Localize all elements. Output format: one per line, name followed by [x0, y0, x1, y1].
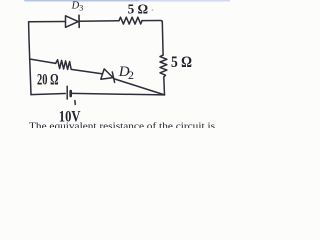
- wire top-left to D3: [29, 21, 65, 24]
- resistor 20ohm zigzag: [56, 60, 72, 70]
- scan artifact top rule: [25, 0, 140, 2]
- stray ink tick: [74, 101, 76, 105]
- wire bottom left segment: [31, 94, 65, 95]
- wire resistor to top-right corner: [142, 21, 163, 56]
- wire D3 to resistor: [79, 20, 119, 23]
- svg-text:The equivalent resistance of t: The equivalent resistance of the circuit…: [29, 121, 216, 128]
- svg-text:20 Ω: 20 Ω: [37, 72, 59, 89]
- wire 20ohm to D2: [71, 69, 102, 73]
- node middle junction: [30, 59, 56, 63]
- svg-text:5 Ω: 5 Ω: [171, 52, 192, 71]
- battery cell short plate: [69, 91, 72, 96]
- scan artifact top rule fade: [140, 0, 230, 2]
- wire bottom right segment: [72, 93, 164, 95]
- diode D2 cathode bar: [112, 72, 114, 82]
- svg-text:5 Ω: 5 Ω: [128, 3, 149, 18]
- wire left vertical: [29, 22, 31, 95]
- diode D2: [101, 69, 113, 79]
- wire D2 to bottom-right corner: [114, 79, 165, 95]
- wire right resistor to bottom-right corner: [163, 77, 166, 95]
- diode D3 cathode bar: [78, 15, 80, 27]
- diode D3: [66, 16, 79, 27]
- svg-text:3: 3: [79, 4, 83, 13]
- resistor 5ohm top zigzag: [119, 17, 142, 24]
- resistor 5ohm right zigzag: [160, 55, 167, 77]
- scan speck pink: [152, 9, 154, 11]
- battery cell long plate: [66, 86, 68, 99]
- svg-text:2: 2: [128, 68, 134, 82]
